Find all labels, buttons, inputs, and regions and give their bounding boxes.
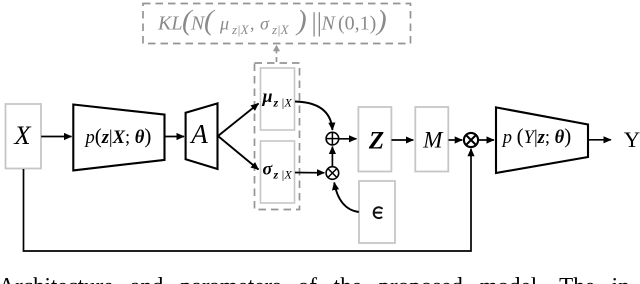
svg-text:z |X: z |X [273,96,293,110]
svg-text:KL: KL [157,13,182,35]
svg-text:Z: Z [368,127,384,154]
svg-text:||: || [312,8,322,37]
svg-text:z|X: z|X [271,22,290,37]
svg-text:z|X: z|X [231,22,250,37]
svg-text:(: ( [204,5,216,37]
svg-text:z |X: z |X [273,168,293,182]
svg-text:X: X [13,120,32,150]
svg-text:σ: σ [263,159,274,179]
svg-text:p(z|X; θ): p(z|X; θ) [83,124,151,148]
svg-text:A: A [189,119,208,149]
svg-text:,: , [250,14,255,34]
svg-text:σ: σ [260,14,270,34]
svg-text:p (Y|z; θ): p (Y|z; θ) [501,124,571,148]
svg-text:): ) [295,5,307,37]
svg-text:(0,1): (0,1) [338,13,376,35]
svg-text:Y: Y [624,127,640,152]
svg-text:N: N [321,13,337,35]
svg-text:μ: μ [219,14,229,34]
svg-text:μ: μ [262,86,273,106]
svg-text:M: M [422,128,444,153]
svg-text:Architecture and parameters of: Architecture and parameters of the propo… [0,274,630,284]
svg-text:): ) [375,5,387,37]
